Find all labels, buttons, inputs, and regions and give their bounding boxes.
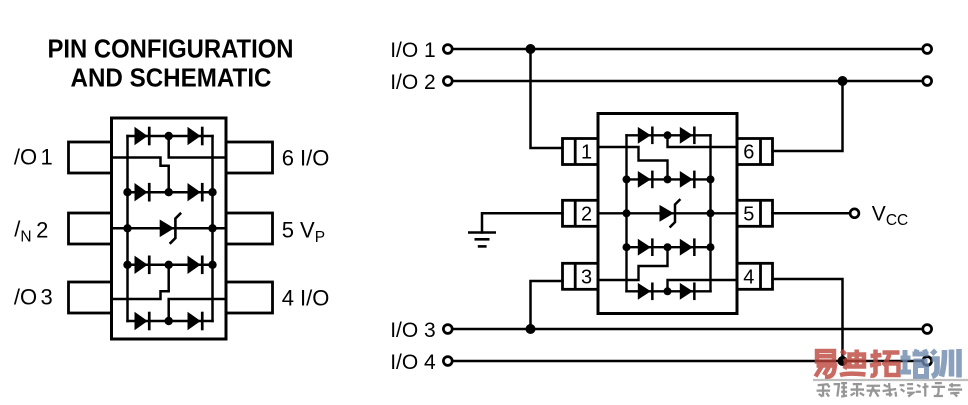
junction I/O 4 tap — [838, 356, 848, 366]
diode IC row4 left — [638, 238, 654, 256]
wire I/O 3 to pin 3 — [531, 281, 563, 329]
pin 2 lead box — [69, 213, 112, 244]
svg-text:I/O 1: I/O 1 — [390, 39, 436, 62]
IC row 2 wire — [627, 178, 711, 180]
svg-text:6 I/O: 6 I/O — [282, 146, 330, 171]
IC pin 4 wire from row 5 mid — [668, 280, 738, 291]
junction IC mid @ row2 — [664, 175, 672, 183]
pin 1 lead box — [69, 142, 112, 173]
svg-text:4 I/O: 4 I/O — [282, 285, 330, 310]
pin 3 lead box — [69, 282, 112, 313]
IC pin 1 jog wire to row 2 mid — [598, 147, 668, 179]
terminal I/O 3 left — [443, 325, 452, 334]
svg-text:PIN CONFIGURATION: PIN CONFIGURATION — [48, 34, 294, 64]
watermark slogan text (decorative) — [817, 384, 831, 396]
diode row2 left (VN side) — [135, 183, 151, 202]
net I/O 2 horizontal wire — [453, 80, 923, 83]
junction IC left rail @ row4 — [623, 243, 631, 251]
terminal I/O 2 right — [923, 77, 932, 86]
wire I/O 4 to pin 4 — [773, 279, 843, 361]
left rail (VN bus) vertical wire — [126, 136, 129, 321]
ground symbol — [468, 233, 496, 247]
center row wire pin2-VN to pin5-VP through zener — [112, 227, 227, 230]
net I/O 1 horizontal wire — [453, 48, 923, 51]
junction I/O 2 tap — [838, 76, 848, 86]
IC row 5 wire — [627, 290, 711, 292]
diode IC row2 left — [638, 171, 654, 189]
IC U1 package outline (application schematic) — [598, 114, 737, 314]
svg-text:/O 3: /O 3 — [14, 284, 53, 309]
junction IC left rail @ center — [623, 209, 631, 217]
svg-text:5: 5 — [743, 204, 754, 226]
IC row 1 wire — [627, 134, 711, 136]
terminal I/O 4 left — [443, 357, 452, 366]
diode IC row5 right — [680, 283, 696, 301]
pin 1 box — [563, 139, 599, 165]
terminal I/O 1 right — [923, 45, 932, 54]
net I/O 3 horizontal wire — [453, 328, 923, 331]
diode row4 right (VP side) — [188, 256, 204, 275]
diode IC row4 right — [680, 238, 696, 256]
pin 4 lead box — [226, 282, 273, 313]
pin 6 lead box — [226, 142, 273, 173]
junction mid column @ row5 — [165, 317, 173, 325]
svg-text:/O 1: /O 1 — [14, 144, 53, 169]
IC center row wire (pin2 to pin5) — [598, 212, 737, 214]
diode IC row1 right — [680, 127, 696, 145]
zener TVS clamp (pkg view) — [160, 214, 181, 243]
junction I/O 1 tap — [526, 44, 536, 54]
diode IC row5 left — [638, 283, 654, 301]
junction left rail @ row2 — [123, 188, 131, 196]
diode row5 left (VN side) — [135, 312, 151, 331]
watermark logo text (decorative overlay) — [813, 349, 968, 397]
diode row2 right (VP side) — [188, 183, 204, 202]
row 5 wire (pin 4 steering pair) — [128, 320, 213, 323]
junction mid column @ row1 — [165, 132, 173, 140]
junction IC mid @ row4 — [664, 243, 672, 251]
IC pin 6 wire from row 1 mid — [668, 135, 738, 147]
junction IC left rail @ row2 — [623, 175, 631, 183]
junction right rail @ center row — [208, 224, 216, 232]
pin 2 box — [563, 200, 599, 226]
svg-text:AND SCHEMATIC: AND SCHEMATIC — [71, 63, 272, 93]
junction IC right rail @ row4 — [707, 243, 715, 251]
pin 5 lead box — [226, 213, 273, 244]
junction mid column @ row2 — [165, 188, 173, 196]
right rail (VP bus) vertical wire — [211, 136, 214, 321]
IC row 4 wire — [627, 246, 711, 248]
svg-text:I/O 3: I/O 3 — [390, 319, 436, 342]
diode row4 left (VN side) — [135, 256, 151, 275]
junction IC mid @ row5 — [664, 287, 672, 295]
pin 4 box — [737, 263, 773, 289]
IC right rail wire — [709, 135, 711, 291]
pin 6 box — [737, 139, 773, 165]
row 4 wire (pin 3 steering pair) — [128, 264, 213, 267]
wire I/O 1 to pin 1 — [531, 49, 563, 148]
net I/O 4 horizontal wire — [453, 360, 923, 363]
terminal VCC — [850, 209, 859, 218]
junction right rail @ row2 — [208, 188, 216, 196]
junction left rail @ center row — [123, 224, 131, 232]
pin 4 wire from row 5 midpoint — [169, 299, 226, 321]
zener TVS clamp (IC) — [660, 200, 680, 227]
terminal I/O 4 right — [923, 357, 932, 366]
terminal I/O 2 left — [443, 77, 452, 86]
svg-text:4: 4 — [743, 267, 754, 289]
svg-text:6: 6 — [743, 142, 754, 164]
diode IC row1 left — [638, 127, 654, 145]
svg-text:2: 2 — [581, 204, 592, 226]
junction mid column @ row4 — [165, 261, 173, 269]
IC pin 3 jog wire to row 4 mid — [598, 247, 668, 280]
wire pin 5 to VCC — [773, 212, 850, 215]
pin 1 wire with jog to row 2 midpoint — [112, 158, 169, 193]
svg-text:3: 3 — [581, 267, 592, 289]
package outline U1 (pin-config view) — [112, 118, 227, 339]
terminal I/O 1 left — [443, 45, 452, 54]
junction left rail @ row4 — [123, 261, 131, 269]
pin 3 wire with jog to row 4 midpoint — [112, 265, 169, 299]
junction IC right rail @ center — [707, 209, 715, 217]
svg-text:I/O 2: I/O 2 — [390, 71, 436, 94]
watermark separator line — [813, 379, 968, 381]
pin 5 box — [737, 200, 773, 226]
wire I/O 2 to pin 6 — [773, 81, 843, 151]
pin 3 box — [563, 263, 599, 289]
junction right rail @ row4 — [208, 261, 216, 269]
junction IC mid @ row1 — [664, 131, 672, 139]
diode row5 right (VP side) — [188, 312, 204, 331]
svg-text:I/O 4: I/O 4 — [390, 351, 436, 374]
svg-text:/N 2: /N 2 — [14, 217, 48, 246]
svg-text:1: 1 — [581, 142, 592, 164]
row 1 wire (pin 6 steering pair) — [128, 135, 213, 138]
IC left rail wire — [625, 135, 627, 291]
diode IC row2 right — [680, 171, 696, 189]
row 2 wire (pin 1 steering pair) — [128, 191, 213, 194]
junction IC right rail @ row2 — [707, 175, 715, 183]
wire pin 2 to ground — [482, 213, 563, 232]
diode row1 left (VN side) — [135, 127, 151, 146]
junction I/O 3 tap — [526, 324, 536, 334]
pin 6 wire from row 1 midpoint — [169, 136, 226, 158]
terminal I/O 3 right — [923, 325, 932, 334]
diode row1 right (VP side) — [188, 127, 204, 146]
